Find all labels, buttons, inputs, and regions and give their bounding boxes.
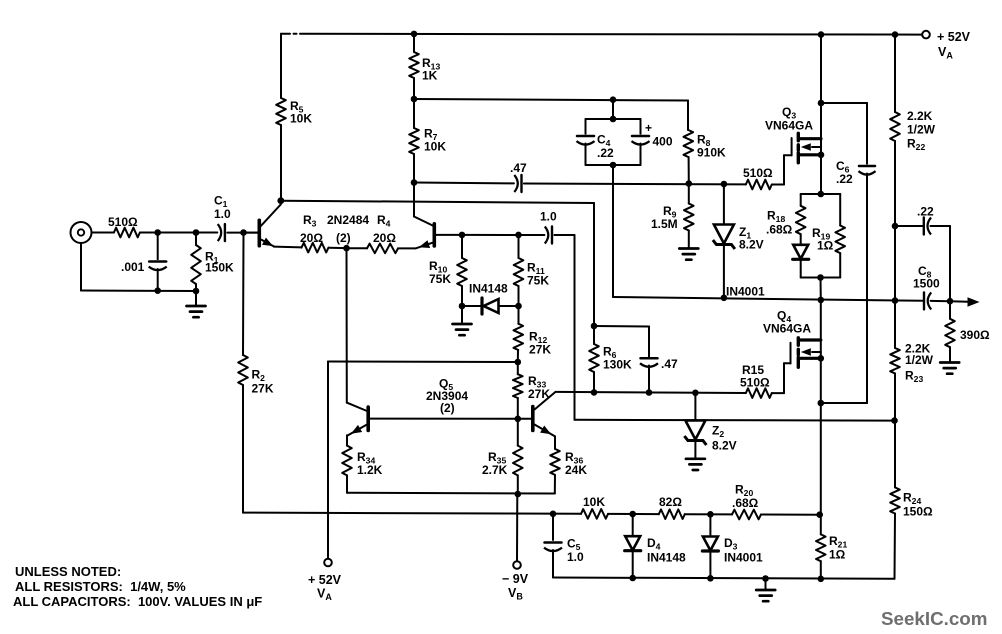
svg-text:510Ω: 510Ω	[108, 215, 138, 229]
svg-text:.68Ω: .68Ω	[732, 496, 759, 510]
svg-text:IN4148: IN4148	[469, 282, 508, 296]
svg-text:ALL RESISTORS: 1/4W, 5%: ALL RESISTORS: 1/4W, 5%	[15, 579, 186, 594]
svg-text:2.2K: 2.2K	[907, 109, 933, 123]
svg-text:UNLESS NOTED:: UNLESS NOTED:	[15, 564, 121, 579]
svg-text:1.0: 1.0	[540, 210, 557, 224]
svg-text:910K: 910K	[697, 146, 726, 160]
svg-text:+ 52V: + 52V	[937, 30, 971, 44]
svg-text:1500: 1500	[913, 277, 940, 291]
svg-text:.001: .001	[121, 260, 145, 274]
svg-text:1Ω: 1Ω	[829, 548, 846, 562]
svg-text:10K: 10K	[424, 140, 446, 154]
svg-text:ALL CAPACITORS: 100V. VALUES: ALL CAPACITORS: 100V. VALUES IN μF	[13, 594, 262, 609]
svg-text:24K: 24K	[565, 463, 587, 477]
svg-text:510Ω: 510Ω	[743, 166, 773, 180]
svg-text:.22: .22	[597, 146, 614, 160]
svg-text:150K: 150K	[205, 261, 234, 275]
svg-text:150Ω: 150Ω	[903, 505, 933, 519]
svg-text:IN4001: IN4001	[724, 551, 763, 565]
svg-text:10K: 10K	[583, 495, 605, 509]
svg-text:8.2V: 8.2V	[712, 439, 737, 453]
svg-text:1/2W: 1/2W	[905, 353, 934, 367]
svg-text:1.2K: 1.2K	[357, 463, 383, 477]
svg-text:.47: .47	[661, 357, 678, 371]
svg-text:130K: 130K	[603, 358, 632, 372]
svg-text:.22: .22	[917, 205, 934, 219]
svg-text:1/2W: 1/2W	[907, 123, 936, 137]
svg-text:20Ω: 20Ω	[300, 231, 323, 245]
svg-text:+: +	[645, 121, 652, 135]
svg-text:(2): (2)	[336, 231, 351, 245]
svg-text:− 9V: − 9V	[502, 572, 529, 586]
svg-text:IN4001: IN4001	[726, 285, 765, 299]
svg-text:.47: .47	[510, 161, 527, 175]
svg-text:400: 400	[653, 135, 673, 149]
svg-text:510Ω: 510Ω	[740, 376, 770, 390]
svg-text:390Ω: 390Ω	[960, 328, 990, 342]
svg-text:75K: 75K	[429, 272, 451, 286]
svg-text:2N2484: 2N2484	[327, 213, 369, 227]
svg-text:.68Ω: .68Ω	[766, 223, 793, 237]
svg-text:1K: 1K	[422, 69, 438, 83]
svg-text:82Ω: 82Ω	[659, 495, 682, 509]
svg-text:1.0: 1.0	[567, 550, 584, 564]
svg-text:1.5M: 1.5M	[651, 217, 678, 231]
svg-text:8.2V: 8.2V	[739, 238, 764, 252]
svg-text:.22: .22	[836, 172, 853, 186]
svg-text:VN64GA: VN64GA	[765, 119, 813, 133]
svg-text:1.0: 1.0	[214, 207, 231, 221]
svg-text:SeekIC.com: SeekIC.com	[881, 608, 987, 629]
svg-text:+ 52V: + 52V	[308, 573, 342, 587]
svg-text:(2): (2)	[440, 401, 455, 415]
svg-text:75K: 75K	[527, 274, 549, 288]
svg-text:10K: 10K	[290, 112, 312, 126]
svg-text:IN4148: IN4148	[647, 551, 686, 565]
svg-text:20Ω: 20Ω	[373, 231, 396, 245]
svg-text:1Ω: 1Ω	[817, 239, 834, 253]
svg-text:2.7K: 2.7K	[482, 463, 508, 477]
svg-text:27K: 27K	[252, 382, 274, 396]
svg-text:VN64GA: VN64GA	[763, 322, 811, 336]
svg-text:27K: 27K	[528, 387, 550, 401]
svg-text:27K: 27K	[529, 343, 551, 357]
